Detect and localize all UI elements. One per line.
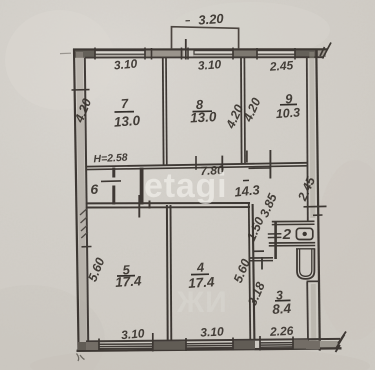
dash above 14.3 (243, 179, 249, 181)
balcony door gap (184, 49, 194, 58)
svg-text:3.10: 3.10 (121, 326, 146, 342)
svg-text:10.3: 10.3 (275, 105, 300, 121)
left wall fill (80, 52, 84, 347)
corridor top wall upper line (86, 163, 307, 167)
svg-text:8.4: 8.4 (272, 301, 292, 317)
dash left of 3.20 label (186, 20, 191, 22)
window room7 (95, 51, 145, 55)
sink dot (303, 232, 307, 236)
top wall outer line (73, 48, 327, 50)
left wall dim tick upper (72, 89, 90, 91)
right wall inner line upper (307, 57, 308, 220)
fraction bar room9 (280, 103, 297, 105)
corridor top wall ticks (195, 156, 197, 170)
svg-text:ЖИ: ЖИ (176, 286, 228, 319)
top wall pier 8-9 (233, 49, 257, 58)
fraction bar room7 (115, 111, 135, 113)
top wall end slash (320, 43, 331, 59)
tick on corridor bottom wall (149, 201, 151, 209)
wall room5-room4 line1 (166, 205, 169, 341)
left wall hatch marks (80, 209, 88, 238)
toilet bottom wall (269, 242, 315, 244)
right wall dim tick upper (304, 205, 327, 207)
right wall fill upper (312, 52, 313, 218)
toilet top wall (272, 220, 315, 222)
sink fixture WC (296, 228, 312, 239)
window end ticks top wall (95, 48, 295, 60)
svg-text:14.3: 14.3 (234, 182, 261, 200)
bathtub inner (300, 249, 312, 276)
wall room7-room8 line2 (165, 58, 168, 165)
right wall inner line lower (306, 282, 309, 341)
svg-text:3.10: 3.10 (197, 57, 222, 73)
top wall band fill (74, 50, 315, 58)
bottom wall window end ticks (99, 333, 293, 352)
hall door dash (253, 250, 264, 252)
balcony (172, 27, 239, 49)
top wall stub beyond right wall (318, 50, 326, 57)
svg-text:2.45: 2.45 (268, 58, 294, 74)
wall room8-room9 line2 (243, 58, 246, 163)
toilet door dashes (268, 233, 282, 235)
bottom wall window lines room5 (99, 343, 293, 349)
wall room7-room8 line1 (162, 58, 165, 166)
svg-text:2.26: 2.26 (269, 324, 294, 339)
closet partition room6 (112, 168, 115, 178)
svg-text:6: 6 (90, 181, 98, 197)
door jamb room5 (138, 195, 140, 218)
svg-text:13.0: 13.0 (190, 109, 218, 125)
svg-text:H=2.58: H=2.58 (93, 152, 128, 166)
wall room5-room4 line2 (170, 205, 173, 341)
fraction bar room3 (275, 299, 291, 301)
top wall inner line (85, 56, 324, 58)
svg-text:2: 2 (282, 226, 292, 243)
bottom wall end slash (336, 332, 347, 353)
scribble below bottom-left corner (77, 354, 85, 362)
svg-text:3.10: 3.10 (113, 56, 138, 72)
bottom wall outer line (77, 348, 342, 351)
top wall pier mid (145, 49, 194, 58)
bath nook jog wall (307, 280, 320, 282)
corridor bottom wall upper line (86, 202, 250, 204)
toilet left wall (274, 221, 277, 259)
window room8 (194, 51, 233, 55)
bathtub rim line (296, 248, 315, 250)
closet wall (140, 168, 144, 205)
right wall outer line (316, 49, 320, 351)
kitchen door tick (261, 257, 263, 270)
paper blotches (0, 285, 105, 370)
fraction bar room4 (191, 273, 209, 275)
svg-text:17.4: 17.4 (115, 273, 143, 290)
wall room4-hall-kitchen line1 (249, 204, 251, 340)
top wall pier left (74, 49, 95, 58)
bathtub outer (297, 249, 314, 279)
left wall outer line (74, 49, 79, 351)
svg-text:3.10: 3.10 (200, 324, 224, 339)
window room9 (257, 51, 295, 55)
bottom wall corner fill right (306, 341, 320, 350)
fraction bar room5 (117, 275, 135, 277)
corridor bottom wall lower line (86, 206, 250, 208)
wall room8-room9 line1 (240, 58, 243, 164)
balcony door jamb (185, 39, 187, 60)
svg-text:3.20: 3.20 (198, 11, 225, 28)
corridor top wall lower line (86, 166, 307, 170)
bottom wall inner line (86, 339, 340, 342)
svg-text:13.0: 13.0 (113, 113, 141, 130)
left wall dim tick lower (82, 246, 92, 248)
wall room4-hall-kitchen line2 (253, 204, 255, 340)
svg-text:etagi: etagi (144, 167, 227, 205)
fraction bar room8 (193, 110, 213, 112)
stray dash left of top wall (60, 52, 71, 54)
bottom wall stub beyond right wall (320, 341, 339, 349)
right wall fill lower (311, 284, 317, 346)
room6 door dash (101, 180, 121, 183)
top wall pier right (295, 49, 318, 58)
bottom wall corner fill left (78, 342, 99, 350)
right wall dim tick lower (313, 214, 323, 216)
bottom wall pier fills (86, 342, 99, 350)
hall bottom wall (250, 257, 273, 259)
left wall inner line (85, 58, 88, 341)
